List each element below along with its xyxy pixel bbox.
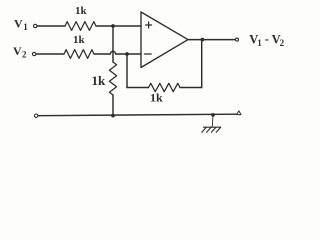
svg-text:V: V (14, 16, 23, 30)
node V1 label (14, 16, 28, 32)
ground (earth hatching) (202, 127, 221, 132)
wire (ground rail) (38, 114, 236, 116)
wire (126, 54, 128, 88)
terminal V1 (34, 24, 37, 27)
terminal (rail left) (35, 114, 38, 117)
terminal OUT (236, 38, 239, 41)
wire (output) (188, 39, 235, 41)
svg-text:2: 2 (22, 50, 27, 60)
svg-text:1k: 1k (92, 73, 107, 88)
svg-text:1k: 1k (75, 5, 88, 17)
resistor R2 1k (64, 34, 94, 58)
svg-text:2: 2 (280, 38, 285, 48)
svg-text:1: 1 (23, 22, 28, 32)
node V2 label (13, 44, 27, 60)
op-amp U1 (141, 12, 188, 68)
wire (180, 87, 202, 89)
wire (127, 87, 149, 89)
wire (112, 26, 114, 62)
wire (96, 25, 141, 27)
wire with crossover hop (94, 51, 141, 54)
node V1 - V2 output label (249, 32, 284, 48)
node rail-R3 junction (111, 114, 115, 118)
node rail-ground junction (211, 113, 215, 117)
terminal (rail right, open triangle) (237, 111, 241, 115)
wire (ground stub) (211, 115, 214, 127)
resistor R3 1k (to ground rail) (92, 62, 117, 95)
resistor R1 1k (65, 5, 96, 30)
node OUT junction (201, 38, 205, 42)
wire (36, 53, 64, 55)
svg-text:V: V (13, 44, 22, 58)
resistor R4 1k (feedback) (149, 83, 181, 104)
wire (37, 25, 65, 27)
wire (112, 95, 114, 116)
svg-text:1k: 1k (150, 91, 163, 105)
terminal V2 (33, 52, 36, 55)
wire (feedback right vertical) (201, 40, 203, 88)
svg-text:1: 1 (257, 38, 262, 48)
svg-text:1k: 1k (73, 34, 86, 46)
node B junction (125, 52, 129, 56)
node A junction (111, 24, 115, 28)
svg-text:-: - (265, 32, 269, 46)
